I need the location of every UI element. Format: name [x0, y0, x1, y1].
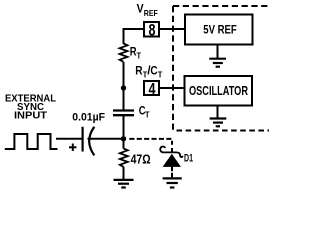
svg-text:T: T: [145, 110, 150, 120]
5V REF block: [185, 15, 253, 45]
external sync input label: [5, 94, 56, 122]
RT/CT label: [135, 64, 163, 80]
capacitor CT: [113, 104, 150, 139]
svg-text:5V REF: 5V REF: [203, 23, 237, 37]
oscillator block: [185, 76, 253, 106]
VREF label: [137, 2, 158, 19]
ground (oscillator): [210, 106, 227, 127]
svg-text:REF: REF: [144, 8, 158, 18]
wire pin 4 to oscillator: [160, 87, 185, 89]
svg-text:4: 4: [149, 80, 157, 98]
diode D1 (schottky): [160, 147, 193, 167]
svg-text:D1: D1: [184, 153, 193, 165]
svg-text:V: V: [137, 2, 144, 16]
IC boundary (dashed): [173, 6, 269, 131]
svg-text:OSCILLATOR: OSCILLATOR: [189, 84, 248, 98]
dashed wire node to D1: [129, 139, 172, 152]
ground (5V REF): [209, 46, 226, 67]
wire capacitor to node: [88, 138, 124, 140]
wire sync to capacitor: [56, 138, 82, 140]
svg-text:47Ω: 47Ω: [131, 152, 151, 167]
resistor 47ohm: [120, 139, 151, 167]
svg-text:T: T: [137, 51, 142, 61]
wire rail node to CT: [123, 88, 125, 111]
pin 4 box: [144, 80, 159, 98]
node RT/CT junction: [121, 85, 126, 90]
resistor RT: [120, 44, 142, 89]
ground (47ohm): [114, 167, 134, 188]
wire pin 8 to 5V REF: [160, 28, 184, 30]
svg-text:0.01µF: 0.01µF: [72, 111, 105, 123]
pin 8 box: [144, 21, 159, 39]
svg-text:8: 8: [149, 21, 156, 39]
svg-text:T: T: [158, 69, 163, 79]
svg-text:INPUT: INPUT: [14, 111, 47, 122]
ground (D1): [163, 166, 182, 187]
wire rail top to pin 8: [124, 29, 144, 44]
node bottom junction: [121, 136, 126, 141]
sync square wave: [5, 134, 58, 149]
svg-text:C: C: [150, 64, 157, 78]
capacitor 0.01uF (polarized coupling): [69, 111, 105, 155]
